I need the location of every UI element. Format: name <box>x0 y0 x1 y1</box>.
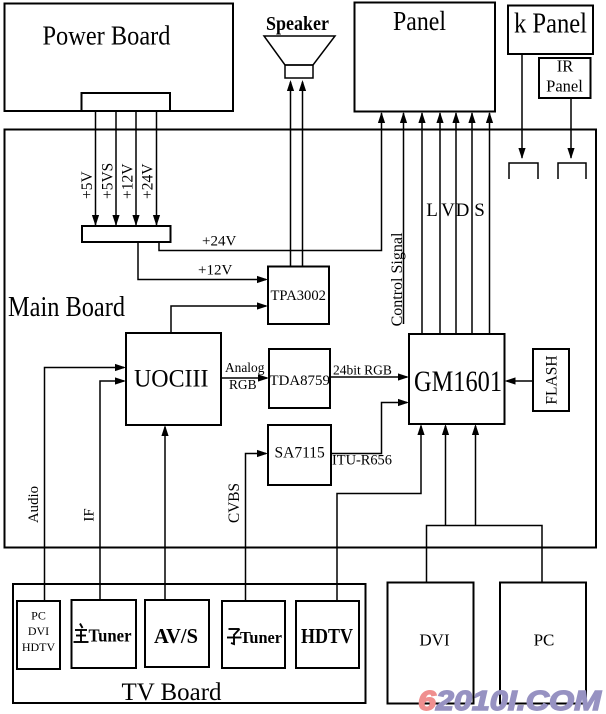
AV/S box <box>145 600 209 667</box>
PC DVI HDTV input box <box>17 601 60 669</box>
svg-text:TDA8759: TDA8759 <box>270 373 330 389</box>
UOCIII U1 box <box>126 333 221 425</box>
wire +24V power <box>156 111 158 225</box>
svg-text:V: V <box>441 200 455 221</box>
svg-text:+12V: +12V <box>198 263 232 279</box>
wire +5V power <box>95 111 97 225</box>
wire DVI branch to GM1601 <box>445 426 447 526</box>
arrow LVDS5 into panel <box>486 112 493 123</box>
svg-text:PC: PC <box>534 631 555 650</box>
wire FLASH to GM1601 <box>507 380 533 382</box>
arrow k panel down <box>518 148 525 159</box>
arrow 24bit RGB into GM1601 <box>398 373 409 380</box>
power connector bar <box>82 226 171 242</box>
arrow +5VS down <box>112 215 119 226</box>
svg-text:+5V: +5V <box>79 171 96 199</box>
arrow PC into GM1601 bottom <box>472 424 479 435</box>
svg-text:TPA3002: TPA3002 <box>271 288 326 304</box>
arrow IF into UOCIII <box>115 377 126 384</box>
svg-text:PC: PC <box>31 609 46 623</box>
wire TDA8759 to GM1601 24bit RGB <box>330 376 407 378</box>
wire LVDS 2 <box>439 113 441 334</box>
Power Board connector tab <box>82 93 171 111</box>
svg-text:AV/S: AV/S <box>154 624 198 648</box>
wire +24V rail to panel <box>159 113 382 251</box>
svg-text:D: D <box>456 200 470 221</box>
svg-text:DVI: DVI <box>28 624 49 638</box>
svg-text:Speaker: Speaker <box>266 14 329 35</box>
svg-text:ITU-R656: ITU-R656 <box>332 453 392 469</box>
svg-text:SA7115: SA7115 <box>275 445 325 462</box>
wire k Panel down <box>521 54 523 158</box>
wire +5VS power <box>115 111 117 225</box>
Panel box <box>355 3 496 112</box>
svg-text:Power Board: Power Board <box>43 20 171 51</box>
arrow +12V down <box>132 215 139 226</box>
Power Board box <box>5 4 234 112</box>
arrow FLASH into GM1601 <box>505 377 516 384</box>
arrow LVDS3 into panel <box>452 112 459 123</box>
arrow audio into UOCIII <box>115 364 126 371</box>
k Panel box <box>508 6 593 55</box>
svg-text:L: L <box>426 200 438 221</box>
arrow DVI into GM1601 bottom <box>442 424 449 435</box>
wire LVDS 4 <box>471 113 473 334</box>
arrow audio into TPA3002 <box>257 302 268 309</box>
svg-text:IF: IF <box>82 508 98 521</box>
arrow control into panel <box>400 112 407 123</box>
svg-text:Analog: Analog <box>225 360 265 375</box>
DVI box <box>388 583 474 704</box>
svg-text:Control Signal: Control Signal <box>389 232 406 326</box>
wire LVDS 3 <box>455 113 457 334</box>
wire UOCIII to TDA8759 analog RGB <box>221 377 267 379</box>
svg-text:Tuner: Tuner <box>89 626 132 646</box>
svg-text:CVBS: CVBS <box>226 483 243 523</box>
svg-text:RGB: RGB <box>229 377 257 392</box>
IR Panel box <box>539 58 591 98</box>
svg-text:FLASH: FLASH <box>544 355 561 404</box>
arrow LVDS2 into panel <box>436 112 443 123</box>
speaker symbol <box>264 36 335 78</box>
svg-text:+5VS: +5VS <box>100 163 117 199</box>
svg-text:Main Board: Main Board <box>8 292 125 323</box>
PC box <box>500 583 586 704</box>
svg-text:IR: IR <box>557 57 574 76</box>
HDTV box <box>296 601 359 668</box>
arrow IR panel down <box>567 148 574 159</box>
svg-text:Tuner: Tuner <box>240 628 283 647</box>
wire AV/S to UOCIII bottom <box>164 427 166 600</box>
svg-text:HDTV: HDTV <box>22 640 56 654</box>
arrow +24V down <box>153 215 160 226</box>
connector bracket right <box>558 163 586 179</box>
wire SA7115 to GM1601 ITU-R656 <box>331 403 407 454</box>
arrowheads <box>92 80 575 457</box>
arrow HDTV into GM1601 bottom <box>417 424 424 435</box>
svg-text:UOCIII: UOCIII <box>134 364 209 393</box>
TV Board box <box>13 584 366 703</box>
arrow LVDS4 into panel <box>468 112 475 123</box>
connector bracket left <box>509 163 538 179</box>
arrow +24V into panel <box>378 112 385 123</box>
svg-text:S: S <box>474 200 485 221</box>
arrow +12V into TPA3002 <box>257 276 268 283</box>
wire HDTV to GM1601 <box>337 426 421 601</box>
arrow speaker right up <box>299 80 306 91</box>
wire UOCIII to TPA3002 audio <box>171 306 266 333</box>
FLASH box <box>533 349 569 411</box>
arrow speaker left up <box>287 80 294 91</box>
svg-text:+12V: +12V <box>120 163 137 199</box>
svg-text:GM1601: GM1601 <box>414 365 502 398</box>
TDA8759 box <box>269 349 330 408</box>
svg-text:HDTV: HDTV <box>301 624 353 648</box>
svg-text:TV Board: TV Board <box>122 677 222 706</box>
wire +12V power <box>135 111 137 225</box>
arrow AVS into UOCIII bottom <box>161 425 168 436</box>
arrow LVDS1 into panel <box>418 112 425 123</box>
wire LVDS 1 <box>421 113 423 334</box>
svg-text:k Panel: k Panel <box>514 9 587 40</box>
arrow CVBS into SA7115 <box>257 450 268 457</box>
wire PC branch to GM1601 <box>475 426 477 526</box>
Main Board box <box>5 130 597 548</box>
wire IF: main tuner to UOCIII <box>100 381 124 600</box>
svg-text:DVI: DVI <box>419 631 450 650</box>
arrow +5V down <box>92 215 99 226</box>
wire speaker right <box>302 82 304 267</box>
CJK glyph zi (sub) <box>227 629 242 644</box>
svg-text:Panel: Panel <box>546 77 583 96</box>
svg-text:24bit RGB: 24bit RGB <box>333 363 392 378</box>
wire IR Panel down <box>570 98 572 158</box>
svg-text:Panel: Panel <box>393 6 446 36</box>
main Tuner box <box>72 600 137 668</box>
arrow analog RGB into TDA8759 <box>258 374 269 381</box>
wire control signal to panel <box>403 113 405 324</box>
wire +12V rail to TPA3002 <box>138 242 266 280</box>
wire CVBS: sub tuner to SA7115 <box>246 454 267 602</box>
wire Audio: PC/DVI/HDTV to UOCIII <box>45 368 125 602</box>
SA7115 box <box>268 425 331 485</box>
svg-text:+24V: +24V <box>202 234 236 250</box>
svg-text:62010I.COM: 62010I.COM <box>418 685 602 714</box>
sub Tuner box <box>222 601 285 668</box>
CJK glyph zhu (main) <box>74 624 89 643</box>
wire speaker left <box>290 82 292 267</box>
arrow ITU into GM1601 <box>398 399 409 406</box>
GM1601 box <box>409 334 505 424</box>
wire DVI/PC bus horizontal <box>427 526 543 583</box>
wire LVDS 5 <box>489 113 491 334</box>
svg-text:Audio: Audio <box>26 486 42 523</box>
TPA3002 box <box>268 267 329 325</box>
svg-text:+24V: +24V <box>140 163 157 199</box>
